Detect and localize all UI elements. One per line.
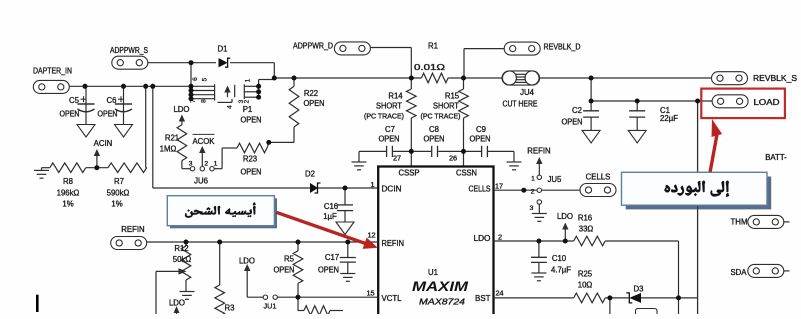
svg-text:OPEN: OPEN — [98, 110, 118, 119]
svg-text:D2: D2 — [305, 170, 315, 179]
svg-text:CUT HERE: CUT HERE — [503, 100, 538, 109]
svg-text:17: 17 — [495, 181, 503, 190]
svg-text:REFIN: REFIN — [121, 225, 144, 234]
svg-text:CELLS: CELLS — [586, 173, 611, 182]
svg-text:P1: P1 — [243, 105, 253, 114]
svg-text:R3: R3 — [225, 304, 235, 313]
svg-text:10Ω: 10Ω — [578, 281, 593, 290]
svg-text:JU1: JU1 — [264, 302, 277, 311]
svg-text:R1: R1 — [428, 42, 438, 51]
svg-text:OPEN: OPEN — [424, 135, 445, 144]
svg-text:8: 8 — [201, 99, 208, 103]
svg-text:1: 1 — [531, 176, 535, 183]
svg-text:REFIN: REFIN — [382, 239, 405, 248]
svg-text:REFIN: REFIN — [527, 147, 550, 156]
svg-text:THM: THM — [731, 218, 748, 227]
svg-text:2: 2 — [498, 233, 502, 242]
svg-text:4: 4 — [227, 105, 234, 109]
svg-text:C9: C9 — [476, 125, 486, 134]
svg-text:CSSP: CSSP — [399, 169, 420, 178]
svg-text:OPEN: OPEN — [274, 266, 295, 275]
svg-text:REVBLK_S: REVBLK_S — [753, 74, 797, 83]
svg-text:C2: C2 — [572, 106, 582, 115]
svg-text:VCTL: VCTL — [382, 294, 403, 303]
svg-text:LDO: LDO — [173, 105, 189, 114]
svg-text:ADPPWR_D: ADPPWR_D — [293, 42, 333, 51]
svg-text:(PC TRACE): (PC TRACE) — [421, 112, 461, 121]
svg-text:SDA: SDA — [730, 268, 747, 277]
svg-text:R16: R16 — [578, 214, 592, 223]
svg-text:1µF: 1µF — [323, 212, 337, 221]
svg-text:1MΩ: 1MΩ — [160, 145, 177, 154]
svg-text:LOAD: LOAD — [754, 98, 780, 107]
svg-text:D1: D1 — [218, 45, 228, 54]
svg-text:1%: 1% — [111, 200, 122, 209]
svg-text:REVBLK_D: REVBLK_D — [544, 43, 581, 52]
svg-text:MAXIM: MAXIM — [412, 279, 469, 294]
svg-text:33Ω: 33Ω — [579, 225, 594, 234]
svg-text:R7: R7 — [114, 177, 124, 186]
svg-text:OPEN: OPEN — [562, 118, 583, 127]
svg-text:LDO: LDO — [474, 234, 491, 243]
svg-text:5: 5 — [202, 77, 209, 81]
svg-text:R25: R25 — [578, 270, 593, 279]
svg-text:R15: R15 — [445, 92, 460, 101]
svg-text:C6: C6 — [107, 96, 117, 105]
svg-text:U1: U1 — [428, 268, 438, 277]
svg-text:R23: R23 — [243, 155, 257, 164]
svg-text:JU4: JU4 — [520, 88, 535, 97]
svg-text:OPEN: OPEN — [60, 110, 80, 119]
svg-text:CELLS: CELLS — [469, 185, 491, 194]
svg-text:C7: C7 — [385, 125, 395, 134]
svg-text:R14: R14 — [388, 92, 403, 101]
svg-text:ADPPWR_S: ADPPWR_S — [110, 46, 148, 55]
svg-text:R22: R22 — [304, 89, 318, 98]
svg-text:2: 2 — [204, 161, 208, 168]
svg-text:590kΩ: 590kΩ — [107, 188, 130, 197]
svg-text:LDO: LDO — [239, 257, 255, 266]
svg-text:7: 7 — [190, 99, 197, 103]
svg-text:D3: D3 — [634, 285, 644, 294]
svg-text:R8: R8 — [63, 177, 73, 186]
svg-text:3: 3 — [189, 161, 193, 168]
svg-text:BST: BST — [475, 294, 491, 303]
svg-text:JU5: JU5 — [548, 175, 563, 184]
svg-text:26: 26 — [449, 154, 457, 163]
svg-text:1%: 1% — [62, 200, 73, 209]
svg-text:R21: R21 — [165, 134, 179, 143]
svg-text:LDO: LDO — [557, 212, 573, 221]
svg-text:C10: C10 — [552, 254, 567, 263]
svg-text:SHORT: SHORT — [376, 102, 402, 111]
svg-text:SHORT: SHORT — [433, 102, 459, 111]
svg-text:C5: C5 — [69, 96, 80, 105]
svg-text:CSSN: CSSN — [456, 169, 477, 178]
svg-text:OPEN: OPEN — [379, 135, 400, 144]
svg-text:C8: C8 — [429, 125, 439, 134]
svg-text:C16: C16 — [324, 202, 338, 211]
svg-text:4.7µF: 4.7µF — [551, 266, 571, 275]
svg-text:15: 15 — [366, 288, 374, 297]
svg-text:24: 24 — [495, 288, 503, 297]
svg-text:0.01Ω: 0.01Ω — [414, 63, 445, 72]
svg-text:C17: C17 — [325, 253, 339, 262]
svg-text:2: 2 — [531, 189, 535, 196]
svg-text:OPEN: OPEN — [318, 266, 339, 275]
svg-text:1: 1 — [245, 78, 252, 82]
svg-text:LDO: LDO — [169, 299, 185, 308]
svg-text:(PC TRACE): (PC TRACE) — [364, 112, 404, 121]
svg-text:12: 12 — [367, 231, 375, 240]
svg-text:27: 27 — [393, 154, 401, 163]
svg-text:R12: R12 — [174, 244, 188, 253]
svg-text:OPEN: OPEN — [241, 116, 262, 125]
svg-text:DAPTER_IN: DAPTER_IN — [33, 67, 72, 76]
svg-text:50kΩ: 50kΩ — [173, 255, 192, 264]
svg-text:196kΩ: 196kΩ — [57, 188, 80, 197]
svg-text:MAX8724: MAX8724 — [419, 298, 466, 307]
svg-text:1: 1 — [370, 180, 374, 189]
svg-text:OPEN: OPEN — [304, 99, 325, 108]
svg-text:BATT-: BATT- — [765, 153, 787, 162]
svg-text:6: 6 — [192, 77, 199, 81]
svg-text:ACIN: ACIN — [94, 139, 113, 148]
svg-text:ACOK: ACOK — [193, 137, 216, 146]
svg-text:2: 2 — [244, 99, 251, 103]
svg-text:R5: R5 — [284, 255, 295, 264]
svg-text:3: 3 — [530, 205, 534, 212]
svg-text:OPEN: OPEN — [470, 135, 491, 144]
svg-text:JU6: JU6 — [194, 177, 208, 186]
svg-text:1: 1 — [214, 161, 218, 168]
svg-text:DCIN: DCIN — [382, 185, 402, 194]
svg-text:22µF: 22µF — [660, 114, 678, 123]
svg-text:OPEN: OPEN — [241, 168, 262, 177]
